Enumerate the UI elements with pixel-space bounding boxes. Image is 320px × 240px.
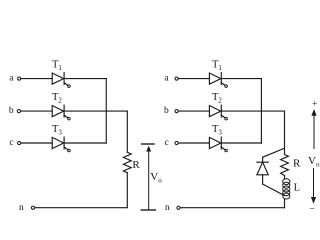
svg-text:n: n [165,203,170,213]
wire load branch down to resistor (right) [284,111,286,154]
wire resistor to n line (left) [126,173,128,208]
svg-text:Vo: Vo [308,155,320,168]
terminal a (left) [18,77,21,80]
thyristor T2 (right) [209,105,227,120]
wire T2 cathode to load (right) [221,110,284,112]
wire n line (right) [180,207,284,209]
svg-text:+: + [312,100,317,110]
thyristor T3 (right) [209,137,227,152]
Vo bottom reference bar (left) [141,209,155,211]
terminal a (right) [175,77,178,80]
wire to freewheeling diode top (right) [263,148,285,157]
wire a to T1 anode (left) [21,78,52,80]
Vo arrow (left) [146,146,151,209]
Vo up arrow (right) [311,109,316,149]
wire resistor to inductor (right) [284,176,286,179]
svg-text:L: L [294,182,300,193]
inductor L (right) [283,179,290,199]
svg-text:R: R [293,157,301,169]
wire c to T3 anode (right) [178,142,209,144]
wire c to T3 anode (left) [21,142,52,144]
wire T1 cathode to bus (right) [221,78,261,80]
svg-text:T1: T1 [212,60,222,72]
svg-text:T2: T2 [52,92,62,104]
wire T2 cathode to load branch (left) [64,110,127,112]
svg-text:b: b [9,106,14,116]
wire n line (left) [35,207,128,209]
Vo down arrow (right) [311,169,316,204]
terminal c (right) [175,141,178,144]
terminal b (left) [17,110,20,113]
svg-text:c: c [165,138,169,148]
thyristor T1 (left) [52,73,70,88]
terminal n (left) [31,206,34,209]
svg-text:Vo: Vo [150,171,162,184]
svg-text:a: a [9,73,14,83]
wire bus vertical T1/T3 (right) [260,79,262,143]
wire a to T1 anode (right) [178,78,209,80]
terminal c (left) [18,141,21,144]
wire load branch down to resistor (left) [126,111,128,152]
freewheeling diode D (right) [257,157,268,184]
svg-text:−: − [309,205,314,215]
resistor R (right) [281,155,289,176]
thyristor T1 (right) [209,73,227,88]
svg-text:n: n [19,203,24,213]
svg-text:b: b [164,106,169,116]
terminal n (right) [177,206,180,209]
thyristor T3 (left) [52,137,70,152]
resistor R (left) [123,152,131,172]
wire T3 cathode to bus (left) [64,142,106,144]
svg-text:T3: T3 [52,124,62,136]
wire b to T2 anode (left) [21,110,53,112]
wire b to T2 anode (right) [178,110,209,112]
Vo top reference bar (left) [142,143,154,145]
svg-text:T2: T2 [212,92,222,104]
svg-text:c: c [9,138,13,148]
svg-text:R: R [132,159,140,171]
wire freewheeling diode bottom (right) [263,184,285,196]
svg-text:T1: T1 [52,60,62,72]
terminal b (right) [175,110,178,113]
thyristor T2 (left) [52,105,70,120]
wire bus vertical T1/T3 (left) [105,79,107,143]
wire T1 cathode to bus (left) [64,78,106,80]
wire inductor to n line (right) [284,199,286,208]
svg-text:a: a [164,73,169,83]
svg-text:T3: T3 [212,124,222,136]
wire T3 cathode to bus (right) [221,142,261,144]
